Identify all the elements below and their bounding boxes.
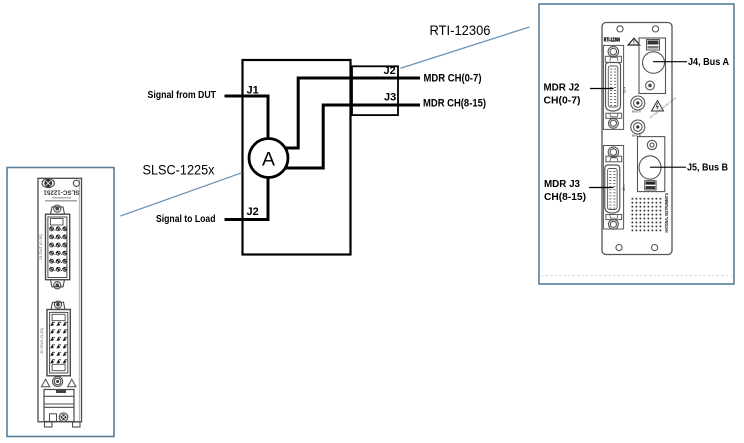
J4 BNC circle — [643, 52, 665, 74]
callout line MDR J3 — [589, 187, 614, 189]
svg-text:SLSC-1225x: SLSC-1225x — [143, 163, 215, 178]
callout line J5 — [650, 166, 686, 168]
MDR J3 top screw — [608, 147, 618, 157]
MDR J3 bottom plate — [606, 215, 622, 220]
svg-text:J3: J3 — [384, 92, 396, 104]
mounting hole bottom-left — [616, 245, 622, 251]
warning triangle middle — [652, 101, 664, 112]
warning triangle left — [41, 379, 49, 387]
svg-text:RTI-12306: RTI-12306 — [430, 23, 491, 38]
RTI panel outline — [602, 23, 672, 255]
wire J2 from ammeter to Signal to Load — [225, 176, 269, 220]
svg-text:MDR CH(8-15): MDR CH(8-15) — [423, 98, 486, 110]
SLSC small print lines — [52, 197, 71, 199]
svg-text:MDR J2: MDR J2 — [544, 83, 580, 94]
mounting hole bottom-right — [652, 245, 658, 251]
feet — [45, 422, 53, 427]
J4 latch — [647, 40, 660, 51]
SLSC panel inner edge line — [78, 178, 80, 421]
MDR J2 assembly outline — [603, 45, 623, 129]
MDR J2 bottom plate — [606, 113, 622, 118]
svg-text:J4, Bus A: J4, Bus A — [688, 57, 729, 68]
connector J2 top tab + screw — [51, 302, 65, 309]
connector J1 top tab + screw — [51, 207, 65, 214]
connector J1 shell — [46, 214, 70, 280]
svg-text:BUS A: BUS A — [632, 110, 642, 114]
wire J1 from Signal from DUT to ammeter — [225, 96, 269, 140]
svg-text:RTI-12306: RTI-12306 — [604, 37, 620, 43]
svg-text:J2: J2 — [247, 206, 259, 218]
svg-text:Signal from DUT: Signal from DUT — [148, 89, 217, 101]
MDR J2 shell — [606, 63, 621, 112]
svg-text:J3 ●: J3 ● — [622, 184, 626, 190]
faint dotted artifact line — [541, 275, 732, 277]
MDR J2 bottom screw — [609, 118, 619, 128]
SMB connector 2 (Bus B) — [631, 120, 645, 134]
connector J2 bottom screw — [53, 377, 63, 387]
J5 small SMB — [647, 140, 656, 149]
mounting hole top-right — [652, 26, 658, 32]
J5 connector block — [638, 137, 665, 192]
warning triangle top — [628, 38, 640, 45]
svg-text:CH(8-15): CH(8-15) — [544, 192, 586, 203]
svg-text:J2 GND (0-15): J2 GND (0-15) — [39, 327, 44, 354]
svg-text:J1 OUT (0-15): J1 OUT (0-15) — [38, 234, 43, 260]
wire from ammeter to RTI J2 / MDR CH(0-7) — [284, 78, 421, 148]
J4 small SMB — [646, 81, 655, 90]
svg-text:J2: J2 — [384, 65, 396, 77]
ammeter A — [249, 139, 288, 178]
MDR J3 top plate — [606, 156, 622, 162]
connector J1 pins — [50, 227, 67, 271]
svg-text:NATIONAL INSTRUMENTS: NATIONAL INSTRUMENTS — [664, 193, 669, 233]
connector J2 pins — [50, 322, 67, 363]
connector J2 shell — [47, 310, 70, 376]
MDR J2 top plate — [605, 56, 621, 62]
svg-text:J1: J1 — [247, 85, 259, 97]
callout line J4 — [653, 61, 687, 63]
right figure frame — [539, 4, 734, 284]
ejector screw — [59, 413, 68, 422]
blue callout line to RTI-12306 label — [401, 27, 530, 68]
J5 latch — [645, 181, 656, 190]
SLSC module outline box — [243, 60, 351, 255]
wire from ammeter to RTI J3 / MDR CH(8-15) — [283, 105, 420, 168]
blue callout line to SLSC-1225x label — [121, 173, 243, 216]
svg-text:J2 ●: J2 ● — [623, 87, 627, 93]
svg-text:A: A — [262, 149, 275, 171]
J4 connector block — [639, 38, 666, 94]
connector J1 bottom tab + screw — [51, 280, 65, 287]
warning triangle right — [68, 379, 76, 387]
svg-text:MDR J3: MDR J3 — [544, 179, 580, 190]
svg-text:Signal to Load: Signal to Load — [156, 213, 216, 225]
MDR J2 top screw — [608, 46, 618, 56]
MDR J3 assembly outline — [603, 146, 623, 230]
svg-text:SLSC-12251: SLSC-12251 — [43, 188, 79, 195]
SLSC panel outline — [38, 178, 82, 421]
callout line MDR J2 — [590, 88, 614, 90]
ventilation grid — [632, 198, 662, 231]
svg-text:J5, Bus B: J5, Bus B — [687, 163, 728, 174]
MDR J3 shell — [605, 165, 620, 213]
left figure frame — [7, 168, 114, 437]
J5 BNC circle — [639, 156, 661, 179]
mounting hole top-left — [617, 26, 623, 32]
SMB connector 1 (Bus A) — [631, 96, 645, 110]
SLSC top screw — [42, 179, 54, 188]
SLSC top-right hole — [73, 180, 79, 186]
MDR J3 bottom screw — [609, 220, 619, 230]
svg-text:100 Vpk, MI per IEC 61010: 100 Vpk, MI per IEC 61010 — [648, 96, 677, 120]
RTI connector box — [352, 66, 398, 115]
svg-text:CH(0-7): CH(0-7) — [544, 96, 581, 107]
ejector block — [44, 390, 74, 422]
svg-text:MDR CH(0-7): MDR CH(0-7) — [424, 73, 482, 85]
